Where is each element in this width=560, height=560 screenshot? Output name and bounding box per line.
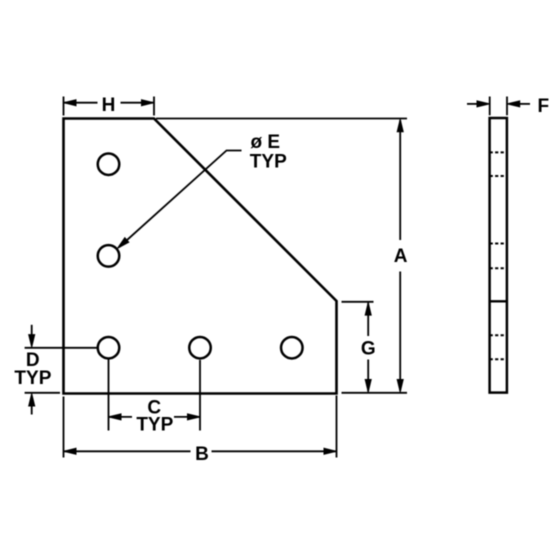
hidden line hole middle-left lower bbox=[490, 267, 507, 269]
leader arrow at hole middle-left bbox=[118, 238, 129, 249]
hidden line bottom hole row lower bbox=[490, 358, 507, 360]
dimension B line right segment bbox=[212, 450, 337, 452]
dimension D top arrow stem bbox=[31, 325, 33, 337]
hole bottom-left bbox=[98, 337, 120, 359]
hole bottom-right bbox=[281, 337, 303, 359]
hidden line hole top-left lower bbox=[490, 175, 507, 177]
side view chamfer corner edge line bbox=[490, 300, 507, 302]
svg-text:TYP: TYP bbox=[14, 368, 51, 389]
dimension B right extension line bbox=[336, 396, 338, 458]
dimension D bottom arrow bbox=[29, 394, 35, 407]
dimension H line right segment bbox=[121, 102, 155, 104]
hole top-left bbox=[98, 153, 120, 175]
dimension G arrow bottom bbox=[365, 380, 371, 393]
svg-text:F: F bbox=[538, 96, 550, 117]
hidden line hole middle-left upper bbox=[490, 243, 507, 245]
dimension B arrow left bbox=[64, 448, 77, 454]
dimension H extension line left bbox=[63, 97, 65, 116]
dimension D top arrow bbox=[29, 335, 35, 348]
dimension F extension line left bbox=[489, 97, 491, 116]
dimension F extension line right bbox=[506, 97, 508, 116]
svg-text:H: H bbox=[102, 95, 116, 116]
dimension A arrow bottom bbox=[397, 380, 403, 393]
dimension F right arrow bbox=[507, 101, 520, 107]
hole bottom-middle bbox=[189, 337, 211, 359]
dimension F left arrow bbox=[477, 101, 490, 107]
dimension B arrow right bbox=[324, 448, 337, 454]
dimension C line left segment bbox=[109, 416, 133, 418]
dimension F left tail line bbox=[467, 103, 478, 105]
leader line for hole diameter callout bbox=[119, 151, 242, 248]
dimension A bottom extension line bbox=[342, 392, 408, 394]
dimension H arrow left bbox=[64, 100, 77, 106]
dimension H line left segment bbox=[64, 102, 98, 104]
side view outline bbox=[490, 118, 507, 393]
dimension A top extension line bbox=[156, 118, 407, 120]
dimension H extension line right bbox=[153, 97, 155, 116]
svg-text:A: A bbox=[394, 246, 408, 267]
dimension D bottom arrow stem bbox=[31, 404, 33, 415]
svg-text:TYP: TYP bbox=[250, 151, 287, 172]
dimension C extension line below hole bottom-left bbox=[108, 360, 110, 431]
dimension F right tail line bbox=[519, 103, 530, 105]
dimension A line lower segment bbox=[399, 272, 401, 392]
dimension D extension line through hole bottom-left center bbox=[25, 347, 97, 349]
dimension C line right segment bbox=[174, 416, 200, 418]
dimension G arrow top bbox=[365, 303, 371, 316]
hidden line bottom hole row upper bbox=[490, 334, 507, 336]
dimension G line lower segment bbox=[367, 360, 369, 392]
svg-text:ø E: ø E bbox=[251, 132, 281, 153]
dimension B line left segment bbox=[64, 450, 191, 452]
hole middle-left bbox=[98, 245, 120, 267]
dimension D bottom extension line bbox=[25, 392, 60, 394]
dimension G line upper segment bbox=[367, 303, 369, 336]
plate outline (front view) bbox=[64, 119, 337, 394]
dimension B left extension line bbox=[63, 397, 65, 458]
hidden line hole top-left upper bbox=[490, 151, 507, 153]
dimension H arrow right bbox=[142, 100, 155, 106]
svg-text:TYP: TYP bbox=[136, 415, 173, 436]
svg-text:G: G bbox=[361, 339, 376, 360]
svg-text:B: B bbox=[195, 444, 209, 465]
dimension C extension line below hole bottom-middle bbox=[199, 360, 201, 431]
dimension A line upper segment bbox=[399, 120, 401, 240]
dimension C arrow left bbox=[109, 414, 122, 420]
dimension A arrow top bbox=[397, 119, 403, 132]
dimension C arrow right bbox=[188, 414, 201, 420]
dimension G top extension line bbox=[342, 301, 374, 303]
